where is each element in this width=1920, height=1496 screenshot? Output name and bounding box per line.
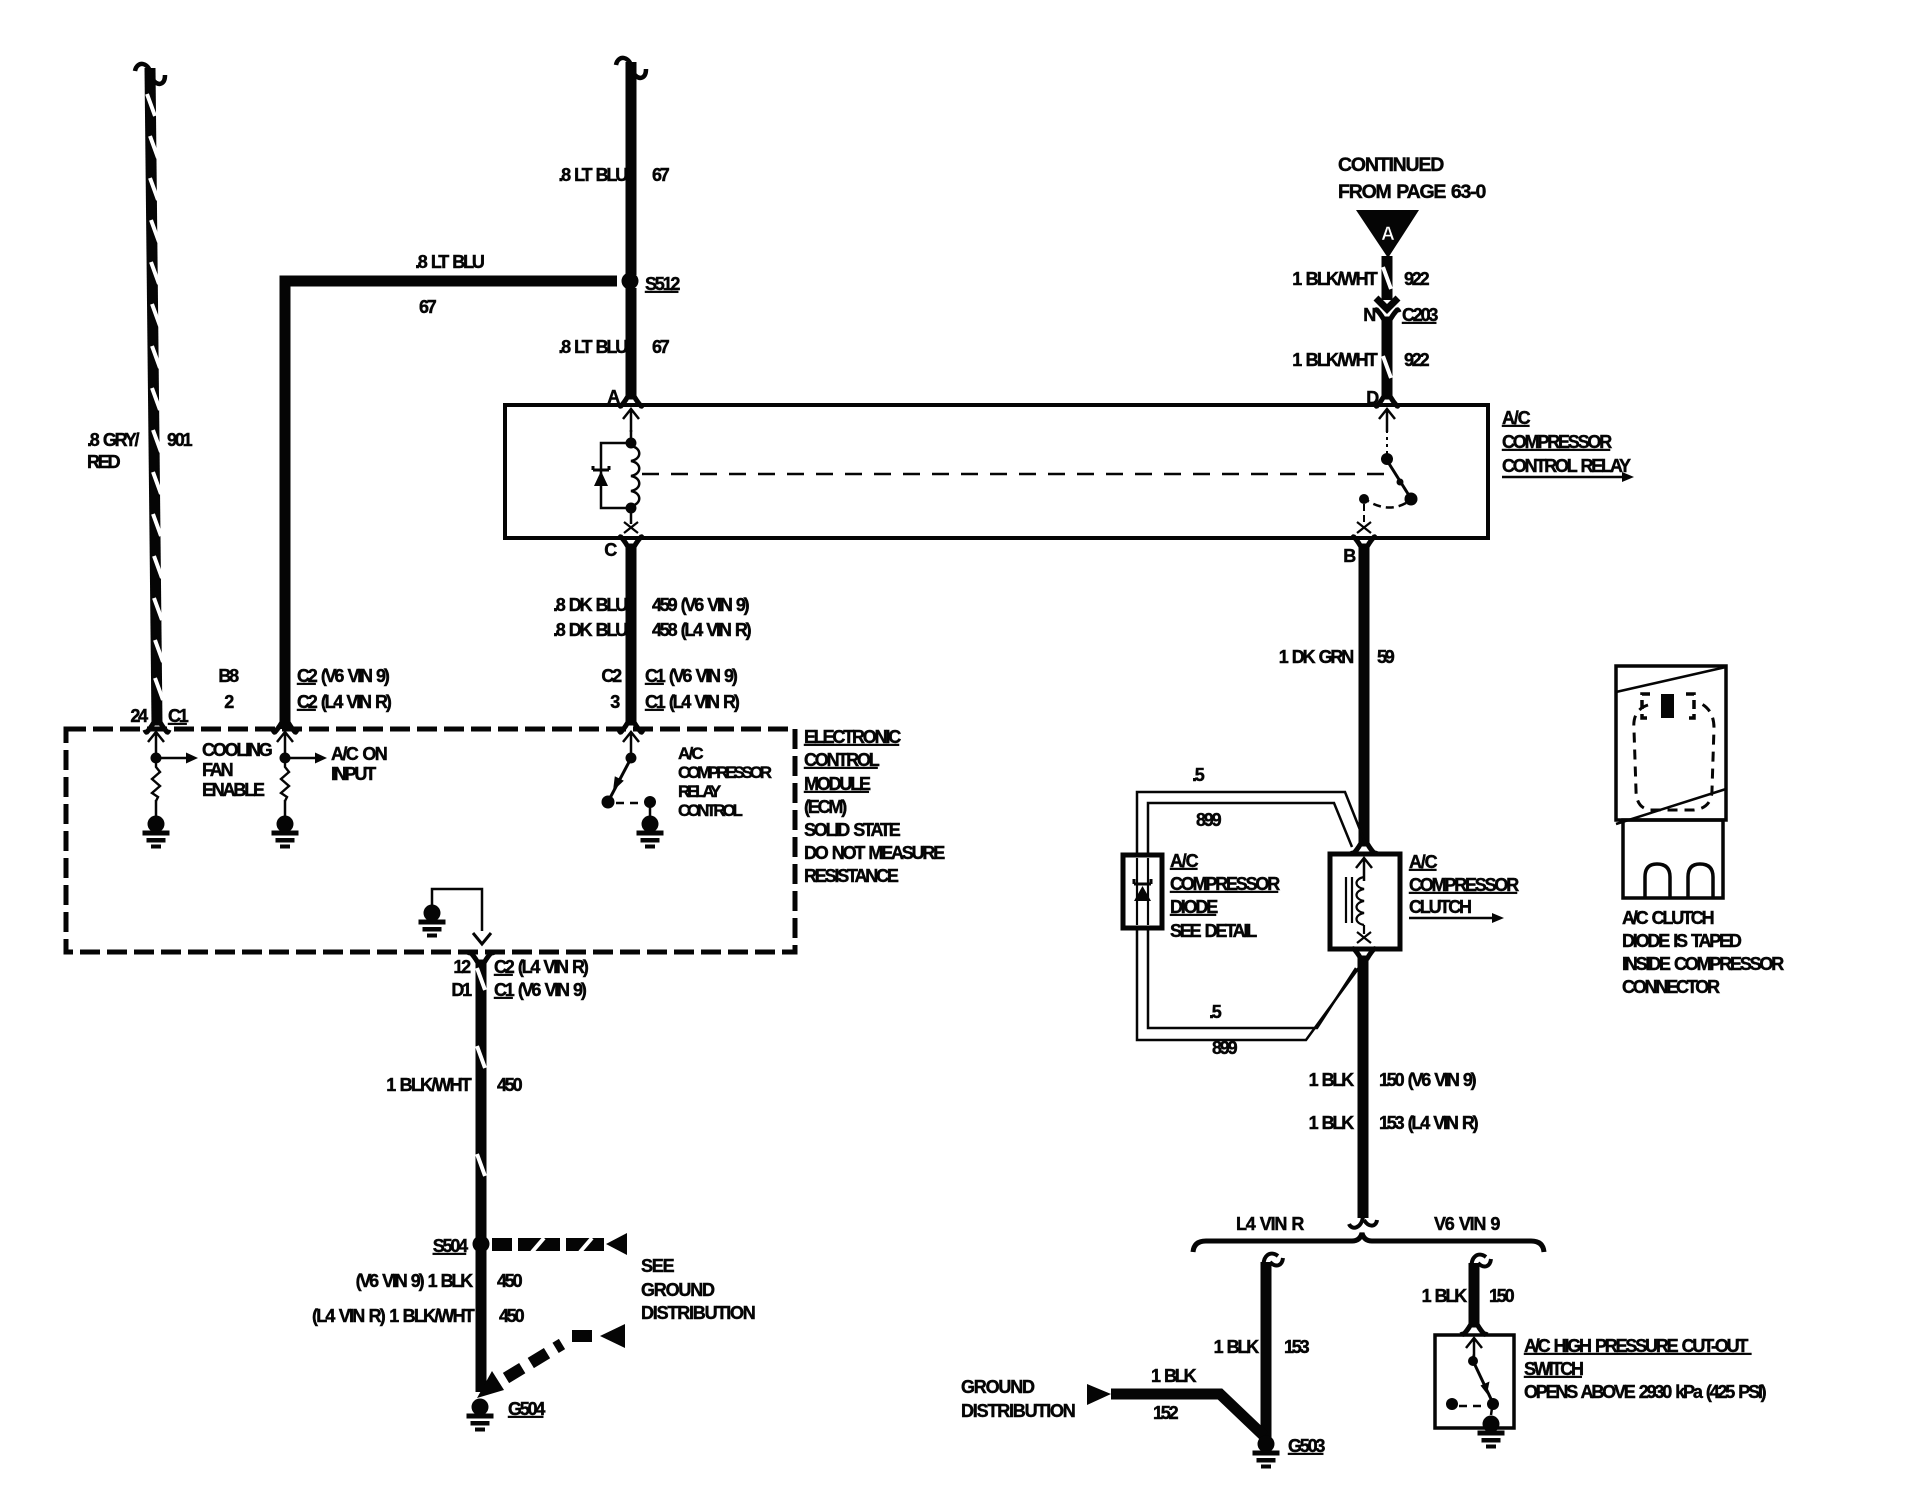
svg-text:C1 (V6 VIN 9): C1 (V6 VIN 9) — [494, 980, 587, 1000]
svg-text:DISTRIBUTION: DISTRIBUTION — [641, 1303, 755, 1323]
svg-text:D1: D1 — [451, 980, 472, 1000]
connector pin 12/D1 (ECM bottom) — [451, 952, 588, 1001]
svg-text:L4 VIN R: L4 VIN R — [1236, 1214, 1304, 1234]
svg-text:ELECTRONIC: ELECTRONIC — [804, 727, 901, 747]
svg-text:(V6 VIN 9) 1 BLK: (V6 VIN 9) 1 BLK — [356, 1271, 474, 1291]
svg-text:COMPRESSOR: COMPRESSOR — [678, 763, 772, 782]
svg-text:CONTINUED: CONTINUED — [1338, 154, 1444, 176]
svg-text:C1 (L4 VIN R): C1 (L4 VIN R) — [645, 692, 740, 712]
svg-text:1 DK GRN: 1 DK GRN — [1279, 647, 1353, 667]
svg-text:A/C: A/C — [1409, 852, 1438, 872]
svg-text:1 BLK: 1 BLK — [1309, 1070, 1355, 1090]
svg-text:1 BLK/WHT: 1 BLK/WHT — [1292, 350, 1378, 370]
svg-text:A: A — [1381, 224, 1395, 245]
A/C clutch diode connector detail — [1616, 666, 1784, 997]
wire 1 BLK/WHT 922 (C203 to relay pin D) — [1292, 320, 1429, 397]
svg-text:COOLING: COOLING — [202, 740, 272, 760]
svg-text:901: 901 — [167, 430, 193, 450]
svg-text:C2 (V6 VIN 9): C2 (V6 VIN 9) — [297, 666, 390, 686]
electronic control module box — [66, 727, 945, 952]
wire .8 GRY/RED 901 — [87, 64, 193, 724]
svg-text:67: 67 — [652, 337, 670, 357]
splice S512 — [622, 273, 681, 295]
svg-text:(ECM): (ECM) — [804, 797, 847, 817]
svg-text:GROUND: GROUND — [961, 1377, 1035, 1397]
dashed wire to ground distribution (off-page) — [477, 1324, 625, 1398]
svg-text:OPENS ABOVE 2930 kPa (425 PSI): OPENS ABOVE 2930 kPa (425 PSI) — [1524, 1382, 1767, 1402]
svg-text:153: 153 — [1284, 1337, 1310, 1357]
svg-text:COMPRESSOR: COMPRESSOR — [1409, 875, 1519, 895]
in-line connector C203 pin N — [1363, 298, 1438, 325]
wire .8 DK BLU 459/458 — [553, 546, 752, 722]
svg-text:C2 (L4 VIN R): C2 (L4 VIN R) — [297, 692, 392, 712]
svg-text:12: 12 — [453, 957, 471, 977]
svg-text:922: 922 — [1404, 269, 1430, 289]
connector pin B (relay) — [1343, 536, 1377, 567]
svg-text:FAN: FAN — [202, 760, 233, 780]
svg-text:CONTROL: CONTROL — [678, 801, 742, 820]
svg-text:DIODE: DIODE — [1170, 897, 1218, 917]
svg-text:C1: C1 — [168, 706, 189, 726]
A/C compressor diode — [1123, 851, 1280, 941]
svg-text:CONTROL: CONTROL — [804, 750, 880, 770]
svg-text:922: 922 — [1404, 350, 1430, 370]
relay actuating dashed link — [642, 473, 1392, 476]
wire 1 BLK 152 from ground distribution — [961, 1366, 1264, 1436]
svg-text:COMPRESSOR: COMPRESSOR — [1502, 432, 1612, 452]
svg-text:G504: G504 — [508, 1399, 545, 1419]
ECM cooling fan enable input — [143, 732, 272, 849]
connector pin A (relay) — [607, 387, 644, 408]
svg-text:B8: B8 — [218, 666, 239, 686]
svg-text:C2: C2 — [601, 666, 622, 686]
svg-text:450: 450 — [497, 1271, 523, 1291]
svg-text:1 BLK: 1 BLK — [1422, 1286, 1468, 1306]
svg-text:1 BLK/WHT: 1 BLK/WHT — [386, 1075, 472, 1095]
connector at pressure switch — [1461, 1325, 1487, 1336]
svg-text:MODULE: MODULE — [804, 774, 871, 794]
relay coil (pin A to pin C) — [623, 409, 639, 533]
wire .8 LT BLU 67 (elbow to S512) — [285, 252, 617, 729]
relay clamp diode — [593, 443, 631, 508]
svg-text:(L4 VIN R) 1 BLK/WHT: (L4 VIN R) 1 BLK/WHT — [312, 1306, 475, 1326]
svg-text:152: 152 — [1153, 1403, 1179, 1423]
ECM internal ground bracket to pin 12 — [419, 889, 492, 944]
wire 1 BLK 153 (L4 branch) — [1214, 1254, 1310, 1438]
wire .5 899 (diode loop top) — [1137, 765, 1366, 855]
ground at pressure switch — [1478, 1416, 1505, 1449]
svg-text:24: 24 — [130, 706, 148, 726]
svg-text:C203: C203 — [1402, 305, 1438, 325]
wire 1 BLK/WHT 450 — [386, 961, 522, 1240]
ground G503 — [1253, 1436, 1326, 1469]
svg-text:S504: S504 — [433, 1236, 468, 1256]
svg-text:COMPRESSOR: COMPRESSOR — [1170, 874, 1280, 894]
svg-text:59: 59 — [1377, 647, 1395, 667]
svg-text:ENABLE: ENABLE — [202, 780, 265, 800]
svg-text:INPUT: INPUT — [331, 764, 376, 784]
svg-text:899: 899 — [1196, 810, 1222, 830]
svg-text:150 (V6 VIN 9): 150 (V6 VIN 9) — [1379, 1070, 1477, 1090]
svg-text:N: N — [1363, 305, 1375, 325]
svg-text:V6 VIN 9: V6 VIN 9 — [1434, 1214, 1500, 1234]
svg-text:.8 LT BLU: .8 LT BLU — [558, 337, 627, 357]
svg-text:SEE DETAIL: SEE DETAIL — [1170, 921, 1257, 941]
svg-text:.8 LT BLU: .8 LT BLU — [558, 165, 627, 185]
svg-text:SEE: SEE — [641, 1256, 675, 1276]
relay switch (pin D to pin B) — [1357, 409, 1418, 533]
svg-text:RELAY: RELAY — [678, 782, 722, 801]
svg-text:1 BLK: 1 BLK — [1151, 1366, 1197, 1386]
wire 1 BLK 150/153 (clutch to splitter) — [1309, 957, 1479, 1228]
svg-text:C1 (V6 VIN 9): C1 (V6 VIN 9) — [645, 666, 738, 686]
svg-text:GROUND: GROUND — [641, 1280, 715, 1300]
svg-text:RESISTANCE: RESISTANCE — [804, 866, 899, 886]
svg-text:67: 67 — [419, 297, 437, 317]
svg-text:DO NOT MEASURE: DO NOT MEASURE — [804, 843, 945, 863]
svg-text:450: 450 — [497, 1075, 523, 1095]
svg-text:67: 67 — [652, 165, 670, 185]
connector pin C (relay) — [604, 536, 644, 561]
svg-text:A/C ON: A/C ON — [331, 744, 387, 764]
svg-text:CONTROL RELAY: CONTROL RELAY — [1502, 456, 1631, 476]
svg-text:DISTRIBUTION: DISTRIBUTION — [961, 1401, 1075, 1421]
connector at clutch top — [1351, 844, 1377, 855]
off-page reference A (continued from page 63-0) — [1338, 154, 1486, 258]
svg-text:150: 150 — [1489, 1286, 1515, 1306]
svg-text:.8 LT BLU: .8 LT BLU — [415, 252, 484, 272]
wire 1 BLK 150 (V6 branch) — [1422, 1255, 1515, 1326]
relay box — [505, 405, 1634, 538]
svg-text:A/C CLUTCH: A/C CLUTCH — [1622, 908, 1714, 928]
wire .8 LT BLU 67 (top vertical) — [558, 58, 669, 275]
wire .8 LT BLU 67 (S512 to relay pin A) — [558, 288, 669, 398]
connector pin B8/2 C2 (ECM) — [218, 666, 391, 734]
svg-text:FROM PAGE 63-0: FROM PAGE 63-0 — [1338, 181, 1486, 203]
svg-text:458 (L4 VIN R): 458 (L4 VIN R) — [652, 620, 752, 640]
svg-text:G503: G503 — [1288, 1436, 1325, 1456]
svg-text:899: 899 — [1212, 1038, 1238, 1058]
svg-text:.8 GRY/: .8 GRY/ — [87, 430, 140, 450]
svg-text:S512: S512 — [645, 274, 680, 294]
svg-text:1 BLK: 1 BLK — [1309, 1113, 1355, 1133]
svg-text:CLUTCH: CLUTCH — [1409, 897, 1471, 917]
splice S504 — [433, 1233, 755, 1323]
svg-text:INSIDE COMPRESSOR: INSIDE COMPRESSOR — [1622, 954, 1784, 974]
svg-text:DIODE IS TAPED: DIODE IS TAPED — [1622, 931, 1742, 951]
connector at clutch bottom — [1351, 948, 1377, 959]
svg-text:CONNECTOR: CONNECTOR — [1622, 977, 1720, 997]
wire .5 899 (diode loop bottom) — [1137, 928, 1363, 1058]
svg-text:459 (V6 VIN 9): 459 (V6 VIN 9) — [652, 595, 750, 615]
svg-text:A/C HIGH PRESSURE CUT-OUT: A/C HIGH PRESSURE CUT-OUT — [1524, 1336, 1751, 1356]
ECM A/C on input — [272, 732, 387, 849]
svg-text:A/C: A/C — [1170, 851, 1199, 871]
svg-text:1 BLK/WHT: 1 BLK/WHT — [1292, 269, 1378, 289]
A/C compressor clutch — [1330, 852, 1519, 949]
connector pin 24 C1 (ECM) — [130, 706, 188, 734]
svg-text:153 (L4 VIN R): 153 (L4 VIN R) — [1379, 1113, 1479, 1133]
connector pin D (relay) — [1366, 388, 1400, 408]
ECM A/C compressor relay control switch — [602, 732, 772, 849]
svg-text:.8 DK BLU: .8 DK BLU — [553, 595, 627, 615]
svg-text:A/C: A/C — [1502, 408, 1531, 428]
wire 1 BLK / 1 BLK/WHT 450 (S504 to G504) — [312, 1250, 525, 1392]
wire 1 BLK/WHT 922 (above C203) — [1292, 256, 1429, 300]
svg-text:C2 (L4 VIN R): C2 (L4 VIN R) — [494, 957, 589, 977]
svg-text:SOLID STATE: SOLID STATE — [804, 820, 901, 840]
connector pin C2/3 C1 (ECM) — [601, 666, 739, 734]
splitter brace L4 VIN R / V6 VIN 9 — [1193, 1214, 1544, 1252]
svg-text:SWITCH: SWITCH — [1524, 1359, 1583, 1379]
A/C high pressure cut-out switch — [1435, 1335, 1767, 1428]
svg-text:1 BLK: 1 BLK — [1214, 1337, 1260, 1357]
svg-text:.8 DK BLU: .8 DK BLU — [553, 620, 627, 640]
svg-text:A/C: A/C — [678, 744, 703, 763]
ground G504 — [467, 1399, 546, 1432]
svg-text:450: 450 — [499, 1306, 525, 1326]
svg-text:RED: RED — [87, 452, 121, 472]
wire 1 DK GRN 59 (relay B to clutch) — [1279, 546, 1395, 845]
